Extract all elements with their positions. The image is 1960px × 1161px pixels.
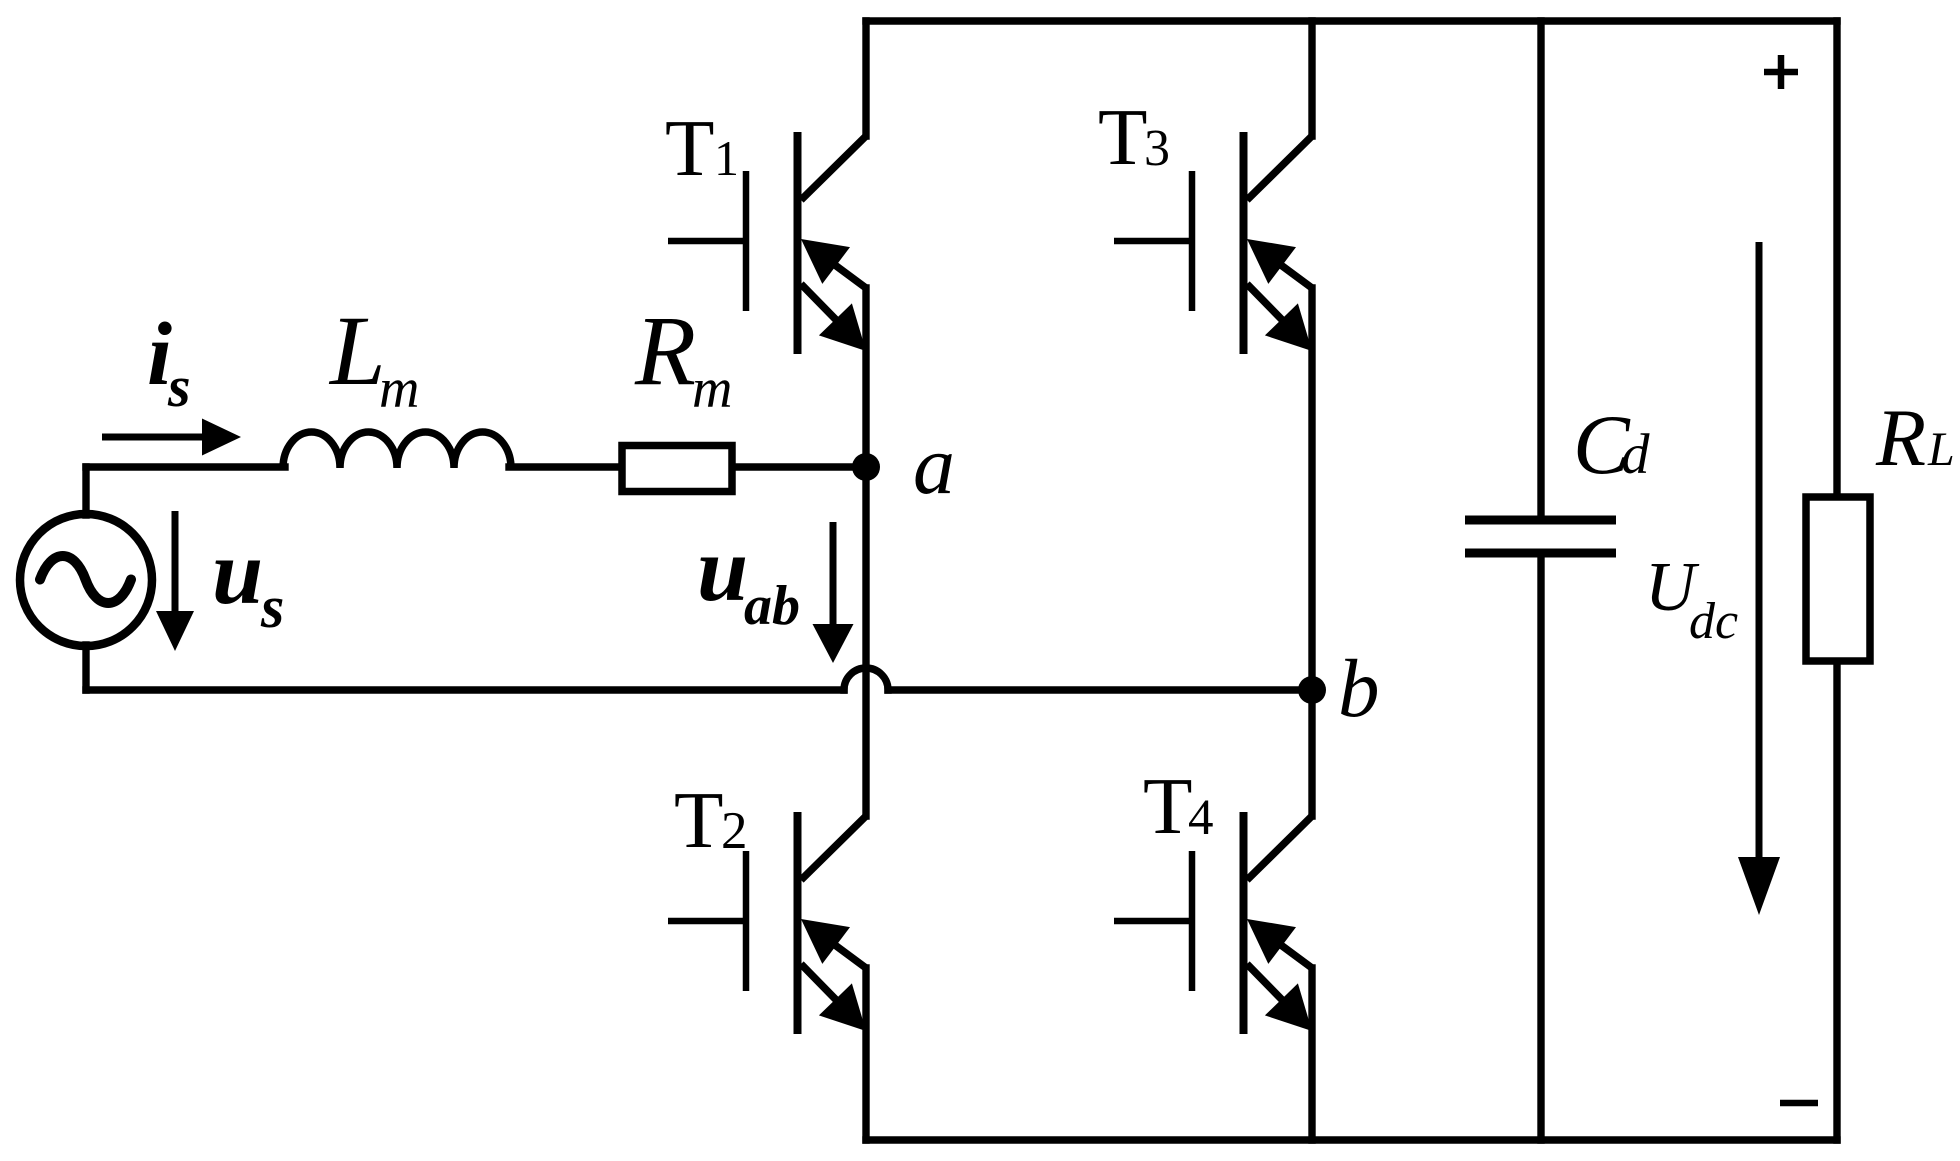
wire: left leg top (bus to T1 collector): [862, 21, 869, 136]
wire: Cd bottom lead: [1537, 558, 1544, 1140]
wire: right edge upper (to RL): [1833, 21, 1840, 497]
wire: crossover to node b: [888, 686, 1312, 693]
label T1: [665, 103, 739, 193]
wire: left leg middle (T1 emitter to node a to T2 collector): [862, 288, 869, 816]
svg-text:2: 2: [721, 802, 748, 860]
svg-text:L: L: [1927, 423, 1955, 476]
minus terminal: [1780, 1100, 1818, 1107]
svg-text:1: 1: [714, 130, 739, 186]
wire: Cd top lead: [1537, 21, 1544, 515]
arrow uab (bridge voltage): [813, 522, 854, 663]
label us: [212, 521, 284, 640]
label is: [147, 305, 191, 419]
arrow Udc (output voltage): [1738, 242, 1780, 915]
wire: inductor to resistor Rm: [509, 463, 623, 470]
label uab: [697, 518, 800, 637]
wire: right leg top (bus to T3 collector): [1308, 21, 1315, 136]
label Rm: [634, 295, 732, 420]
svg-text:R: R: [1875, 392, 1926, 483]
wire: bottom horizontal to crossover: [86, 686, 844, 693]
label Udc: [1645, 549, 1738, 650]
label RL: [1875, 392, 1955, 483]
svg-text:u: u: [212, 521, 263, 623]
arrow is (source current): [102, 419, 241, 456]
arrow us (source voltage): [156, 511, 194, 651]
transistor T2 (IGBT with antiparallel diode): [668, 812, 866, 1034]
wire: left leg bottom (T2 emitter to bottom bus): [862, 968, 869, 1140]
label Cd: [1573, 398, 1650, 492]
svg-text:dc: dc: [1689, 593, 1738, 650]
AC source us: [20, 514, 152, 646]
svg-text:3: 3: [1144, 120, 1170, 177]
svg-text:m: m: [692, 358, 732, 420]
wire: source top vertical: [82, 467, 89, 515]
node b: [1298, 676, 1326, 704]
label Lm: [328, 295, 419, 420]
wire: top bus: [866, 17, 1837, 24]
svg-text:T: T: [1143, 761, 1192, 851]
svg-text:m: m: [379, 358, 419, 420]
node a: [852, 453, 880, 481]
resistor Rm: [622, 446, 732, 492]
wire: crossover hop over left leg: [844, 668, 888, 690]
svg-text:s: s: [260, 574, 284, 640]
wire: right edge lower (from RL): [1833, 661, 1840, 1140]
label T3: [1098, 92, 1170, 182]
svg-text:u: u: [697, 518, 748, 620]
plus terminal: [1764, 55, 1798, 89]
inductor Lm: [283, 432, 511, 468]
resistor RL: [1806, 497, 1870, 661]
svg-text:b: b: [1338, 642, 1380, 734]
svg-text:a: a: [913, 419, 955, 512]
svg-text:ab: ab: [744, 575, 800, 637]
wire: source top horizontal to inductor: [86, 463, 285, 470]
wire: right leg bottom (T4 emitter to bottom bus): [1308, 968, 1315, 1140]
wire: bottom bus: [866, 1136, 1837, 1143]
svg-text:R: R: [634, 295, 696, 406]
svg-text:T: T: [674, 775, 723, 865]
transistor T3 (IGBT with antiparallel diode): [1114, 132, 1312, 354]
svg-text:L: L: [328, 295, 386, 406]
wire: source bottom vertical: [82, 645, 89, 690]
transistor T4 (IGBT with antiparallel diode): [1114, 812, 1312, 1034]
label T2: [674, 775, 748, 865]
wire: resistor Rm to node a: [731, 463, 866, 470]
svg-text:T: T: [1098, 92, 1147, 182]
svg-text:4: 4: [1188, 790, 1214, 846]
svg-text:d: d: [1621, 423, 1650, 486]
transistor T1 (IGBT with antiparallel diode): [668, 132, 866, 354]
capacitor Cd: [1465, 520, 1616, 553]
svg-text:T: T: [665, 103, 714, 193]
svg-text:s: s: [167, 354, 191, 419]
wire: right leg middle (T3 emitter to node b to T4 collector): [1308, 288, 1315, 816]
label T4: [1143, 761, 1214, 851]
